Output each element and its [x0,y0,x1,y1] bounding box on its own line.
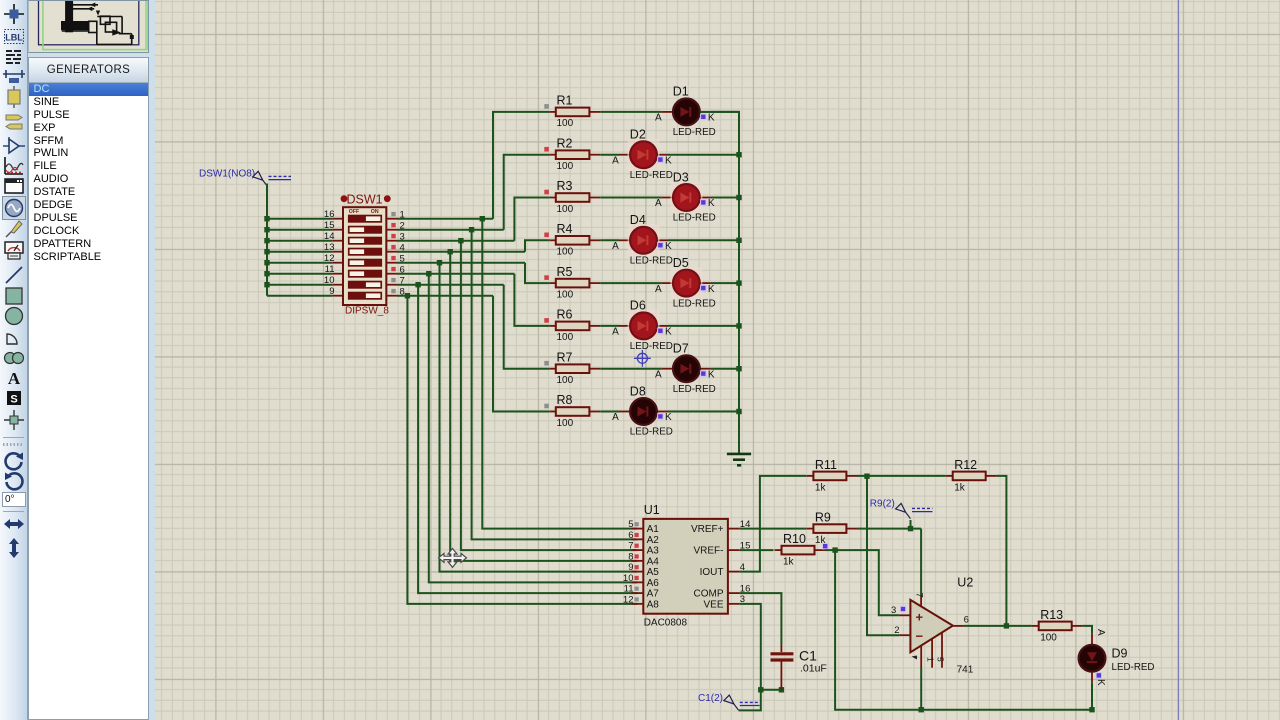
svg-text:DAC0808: DAC0808 [644,618,688,629]
svg-text:12: 12 [623,594,634,605]
junction row7 to DAC branch [415,282,420,287]
wire riser to R8 [493,296,550,412]
switch slot 8 [349,292,382,299]
state square A7 [635,587,639,591]
resistor R9 [806,511,857,547]
resistor R12 [946,458,997,494]
toolbar icon: wire junction [2,2,26,26]
wire row2 to DAC A2 [472,230,638,540]
svg-text:R5: R5 [557,265,573,279]
svg-text:U1: U1 [644,503,660,517]
wire bus to DSW1 pin 9 [267,295,332,297]
pin stub 14 [332,240,343,242]
junction rail D6 [736,323,741,328]
wire sw4 row [397,251,525,253]
wire R10 right [825,549,835,551]
wire row5 to DAC A5 [440,263,638,572]
svg-text:LED-RED: LED-RED [673,213,716,224]
junction rail D8 [736,409,741,414]
toolbar icon: 2D marker [2,408,26,432]
blue origin marker [634,350,651,367]
switch slot 7 [349,281,382,288]
state square D5 [701,286,705,290]
op-amp U2 741 [899,596,964,668]
wire sw6 row [397,273,514,275]
svg-text:LED-RED: LED-RED [1112,662,1155,673]
wire R11 to junction [857,475,867,477]
svg-text:A: A [655,113,662,124]
anode lead D1 [662,111,673,113]
svg-text:1k: 1k [783,557,795,568]
wire D4 to rail [668,239,739,241]
anode lead D3 [662,197,673,199]
anode lead D4 [619,239,630,241]
pin stub sw4 [386,251,397,253]
net label dashes C1(2) [740,701,760,703]
svg-text:D2: D2 [630,128,646,142]
pin stub VREF- [728,549,739,551]
wire bus to DSW1 pin 11 [267,273,332,275]
svg-text:D4: D4 [630,213,646,227]
resistor R4 [544,222,600,258]
resistor R10 [775,532,826,568]
svg-text:DIPSW_8: DIPSW_8 [345,306,389,317]
DIP switch DSW1 body [343,207,386,305]
LED D3 [670,182,702,214]
state square sw2 [391,223,395,227]
svg-text:K: K [665,327,672,338]
toolbar icon: text script [2,45,26,69]
svg-text:A: A [655,369,662,380]
svg-text:A5: A5 [647,567,660,578]
state square A6 [635,576,639,580]
toolbar icon: gate / device pin [2,134,26,158]
svg-text:R7: R7 [557,350,573,364]
svg-text:K: K [708,198,715,209]
svg-text:A: A [655,284,662,295]
wire row4 to DAC A4 [450,252,637,561]
toolbar icon: device [2,85,26,109]
wire R5 to D5 [600,282,662,284]
junction row5 to DAC branch [437,260,442,265]
svg-text:R1: R1 [557,94,573,108]
state square D1 [701,115,705,119]
state square D6 [658,329,662,333]
svg-text:R3: R3 [557,179,573,193]
wire IOUT up to R11 [739,476,806,572]
svg-text:R6: R6 [557,308,573,322]
cathode lead D5 [700,282,711,284]
state halo R9 pin2 [822,543,829,550]
svg-text:15: 15 [324,220,335,231]
LED D8 [630,398,657,425]
toolbar icon: rotate anticlockwise [2,469,26,493]
wire DSW1 common bus vertical [266,184,268,296]
generators panel [28,57,149,720]
resistor R11 [806,458,857,494]
svg-text:OFF: OFF [349,209,359,215]
svg-text:100: 100 [1040,633,1057,644]
svg-text:10: 10 [623,573,634,584]
terminal R9(2) symbol [896,503,911,518]
junction VEE/C1 [758,687,763,692]
pin stub 9 [332,295,343,297]
resistor R8 [544,393,600,429]
svg-text:7: 7 [628,541,633,552]
state square D4 [658,243,662,247]
svg-text:100: 100 [557,161,574,172]
wire sw1 row [397,218,493,220]
resistor R13 [1032,608,1083,644]
cathode lead D8 [657,411,668,413]
mouse move cursor [439,549,467,568]
state square A8 [635,597,639,601]
junction rail D3 [736,195,741,200]
junction row3 to DAC branch [458,238,463,243]
net label dashes R9(2) [912,507,933,509]
state square sw6 [391,267,395,271]
wire R3 to D3 [600,197,662,199]
wire riser to R3 [514,198,549,241]
svg-text:K: K [665,241,672,252]
wire R10 node down to bottom rail [835,550,1092,710]
wire output to R13 [964,625,1032,627]
overview preview window [28,0,149,53]
svg-text:VREF-: VREF- [694,546,724,557]
LED D1 [673,99,700,126]
LED D4 [628,224,660,256]
svg-text:D9: D9 [1112,647,1128,661]
wire bus to DSW1 pin 10 [267,284,332,286]
state square A4 [635,554,639,558]
junction rail D7 [736,366,741,371]
svg-text:K: K [1095,679,1106,686]
svg-text:K: K [665,412,672,423]
svg-text:LED-RED: LED-RED [673,127,716,138]
state square sw4 [391,245,395,249]
svg-text:2: 2 [894,625,899,636]
pin stub 12 [332,262,343,264]
wire R6 to D6 [600,325,619,327]
sheet outline (navy) [39,0,139,45]
pin stub 15 [332,229,343,231]
LED D7 [673,355,700,382]
wire sw7 row [397,284,504,286]
svg-text:A8: A8 [647,599,660,610]
wire sw3 row [397,240,514,242]
state square sw3 [391,234,395,238]
svg-text:LED-RED: LED-RED [673,384,716,395]
junction D9 cathode rail [1089,707,1094,712]
junction row1 to DAC branch [480,216,485,221]
ground symbol [727,454,751,465]
junction bus row 7 [264,282,269,287]
wire bus to DSW1 pin 14 [267,240,332,242]
pin stub sw1 [386,218,397,220]
svg-text:R13: R13 [1040,608,1063,622]
pin stub COMP [728,592,739,594]
junction output node [1004,623,1009,628]
pin stub A2 [632,538,644,540]
svg-text:R4: R4 [557,222,573,236]
wire row6 to DAC A6 [429,274,638,583]
toolbar icon: graph [2,154,26,178]
pin stub IOUT [728,571,739,573]
toolbar icon: instrument [2,237,26,261]
cathode lead D3 [700,197,711,199]
svg-text:10: 10 [324,275,335,286]
resistor R1 [544,94,600,130]
net label dashes [269,175,292,177]
toolbar icon: 2D arc [2,325,26,349]
svg-text:K: K [708,113,715,124]
svg-text:A: A [612,155,619,166]
svg-text:R11: R11 [815,458,837,472]
svg-text:100: 100 [557,289,574,300]
svg-text:D5: D5 [673,256,689,270]
preview thumbnail schematic [62,0,132,44]
pin stub 16 [332,218,343,220]
wire VREF- to R10 [739,549,773,551]
state halo D9 [1096,672,1103,679]
junction op-amp pin4 rail [919,707,924,712]
junction C1 bottom [779,687,784,692]
anode lead D5 [662,282,673,284]
state square D7 [701,371,705,375]
wire riser to R5 [525,263,550,283]
wire R12 to output [996,476,1006,626]
rotation angle box [2,492,26,507]
wire riser to R7 [504,285,550,369]
svg-text:11: 11 [624,584,634,595]
wire riser to R1 [493,112,550,219]
switch slot 5 [349,259,382,266]
wire D9 to rail [1091,683,1093,710]
cathode lead D4 [657,239,668,241]
switch slot 6 [349,270,382,277]
pin stub VREF+ [728,528,739,530]
svg-text:−: − [916,629,924,644]
wire bus to DSW1 pin 13 [267,251,332,253]
pin stub sw3 [386,240,397,242]
state square A2 [635,533,639,537]
toolbar icon: 2D circle [2,304,26,328]
wire D2 to rail [668,154,739,156]
wire R9 to pin7 riser [857,528,921,530]
switch slot 1 [349,215,382,222]
wire bus to DSW1 pin 15 [267,229,332,231]
wire bus to DSW1 pin 12 [267,262,332,264]
switch slot 4 [349,248,382,255]
pin stub sw7 [386,284,397,286]
toolbar icon: 2D line [2,263,26,287]
svg-text:.01uF: .01uF [800,663,827,675]
wire D5 to rail [711,282,739,284]
svg-text:LED-RED: LED-RED [673,298,716,309]
resistor R6 [544,308,600,344]
junction rail D4 [736,238,741,243]
state square pin3 [901,607,905,611]
wire bus to DSW1 pin 16 [267,218,332,220]
state square A3 [635,544,639,548]
toolbar icon: mirror vertical [2,536,26,560]
cathode lead D1 [700,111,711,113]
svg-text:100: 100 [557,118,574,129]
capacitor C1 [771,645,827,690]
wire row8 to DAC A8 [407,296,637,604]
wire R10 node to non-inverting input [835,550,899,615]
wire row3 to DAC A3 [461,241,638,550]
svg-text:741: 741 [957,664,974,675]
wire R4 to D4 [600,239,619,241]
junction bus row 1 [264,216,269,221]
svg-text:A: A [612,412,619,423]
svg-text:5: 5 [936,657,946,662]
pin stub A5 [632,571,644,573]
svg-text:R10: R10 [783,532,806,546]
pin stub sw8 [386,295,397,297]
svg-text:LBL: LBL [5,32,23,42]
svg-text:LED-RED: LED-RED [630,341,673,352]
wire VREF+ to R9 [739,528,806,530]
svg-text:R8: R8 [557,393,573,407]
wire R13 to D9 [1082,626,1092,634]
pin stub A4 [632,560,644,562]
junction bus row 6 [264,271,269,276]
svg-text:A: A [655,198,662,209]
anode lead D6 [619,325,630,327]
svg-text:11: 11 [325,264,335,275]
wire to C1 bottom [761,689,782,691]
svg-text:C1: C1 [799,648,817,664]
toolbar icon: rotate clockwise [2,449,26,473]
junction row8 to DAC branch [405,293,410,298]
anode lead D9 [1091,634,1093,645]
IC U1 DAC0808 body [643,519,728,614]
svg-text:100: 100 [557,375,574,386]
state halo D8 [657,413,664,420]
junction bus row 2 [264,227,269,232]
pin stub sw2 [386,229,397,231]
junction bus row 4 [264,249,269,254]
toolbar icon: 2D text [2,366,26,390]
wire riser to R6 [514,274,549,326]
wire sw8 row [397,295,493,297]
state square A5 [635,565,639,569]
svg-text:VREF+: VREF+ [691,524,724,535]
junction R9(2) terminal [908,526,913,531]
cathode lead D6 [657,325,668,327]
svg-text:R9: R9 [815,511,831,525]
svg-text:K: K [708,369,715,380]
svg-text:C1(2): C1(2) [698,693,723,704]
svg-text:100: 100 [557,247,574,258]
state halo D7 [700,370,707,377]
LED D5 [670,267,702,299]
svg-text:R2: R2 [557,136,573,150]
resistor R2 [544,136,600,172]
wire R1 to D1 [600,111,662,113]
svg-text:IOUT: IOUT [700,567,724,578]
toolbar icon: popup window [2,174,26,198]
state halo pin3 [900,606,907,613]
state square D2 [658,157,662,161]
pin stub A6 [632,581,644,583]
toolbar icon: 2D symbol [2,386,26,410]
state square D3 [701,200,705,204]
svg-text:D1: D1 [673,85,689,99]
svg-text:VEE: VEE [703,599,723,610]
svg-text:A: A [612,327,619,338]
svg-text:9: 9 [628,562,633,573]
svg-text:LED-RED: LED-RED [630,256,673,267]
svg-text:A3: A3 [647,546,660,557]
svg-text:6: 6 [964,615,969,626]
svg-text:3: 3 [891,605,896,616]
switch slot 3 [349,237,382,244]
svg-text:D3: D3 [673,170,689,184]
wire riser to R4 [525,240,550,251]
wire R8 to D8 [600,411,619,413]
wire D3 to rail [711,197,739,199]
toolbar icon: bus terminals [2,110,26,134]
pin stub 13 [332,251,343,253]
svg-text:16: 16 [324,209,335,220]
state square sw8 [391,289,395,293]
svg-text:DSW1(NO8): DSW1(NO8) [199,168,255,179]
pin stub A8 [632,603,644,605]
svg-text:A2: A2 [647,535,660,546]
toolbar icon: mirror horizontal [2,512,26,536]
svg-text:A1: A1 [647,524,660,535]
svg-text:9: 9 [329,286,334,297]
svg-text:A: A [1095,629,1106,636]
toolbar icon: voltage probe [2,217,26,241]
wire junction to R12 [867,475,946,477]
wire D8 to rail [668,411,739,413]
svg-text:S: S [10,393,17,405]
wire R2 to D2 [600,154,619,156]
cathode lead D2 [657,154,668,156]
anode lead D8 [619,411,630,413]
svg-text:1k: 1k [954,483,966,494]
svg-text:K: K [665,155,672,166]
state square D9 [1097,673,1101,677]
toolbar icon: wire label LBL [2,25,26,49]
state square D8 [658,414,662,418]
svg-text:ON: ON [371,209,379,215]
state square A1 [635,522,639,526]
svg-text:1: 1 [926,657,936,662]
cathode lead D7 [700,368,711,370]
junction rail D5 [736,280,741,285]
pin stub A1 [632,528,644,530]
wire D6 to rail [668,325,739,327]
pin stub 11 [332,273,343,275]
resistor R5 [544,265,600,301]
state square sw7 [391,278,395,282]
junction rail D2 [736,152,741,157]
resistor R7 [544,350,600,386]
viewport outline (green) [43,0,147,50]
svg-text:DSW1: DSW1 [347,193,383,207]
svg-text:1k: 1k [815,483,827,494]
svg-text:100: 100 [557,418,574,429]
svg-text:U2: U2 [957,576,973,590]
state square sw5 [391,256,395,260]
junction bus row 3 [264,238,269,243]
svg-text:A7: A7 [647,589,660,600]
